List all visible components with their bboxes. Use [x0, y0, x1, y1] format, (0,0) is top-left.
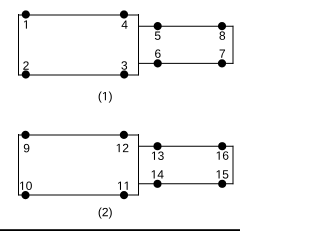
wire: network (2) outer loop bottom edge: [18, 194, 139, 196]
pin label 7: [220, 50, 225, 58]
node 15: [218, 180, 226, 188]
node 7: [218, 59, 226, 67]
node 6: [154, 59, 162, 67]
wire: network (2) outer loop right edge: [138, 134, 140, 196]
node 12: [120, 131, 128, 139]
node 14: [153, 180, 161, 188]
pin label 5: [155, 32, 161, 40]
node 4: [120, 10, 128, 18]
pin label 13: [152, 152, 164, 161]
node 16: [218, 142, 226, 150]
pin label 10: [20, 182, 32, 191]
node 11: [120, 191, 128, 199]
pin label 2: [23, 61, 28, 69]
pin label 9: [24, 144, 30, 153]
pin label 11: [118, 182, 128, 190]
node 2: [22, 70, 30, 78]
pin label 12: [117, 144, 129, 152]
caption (1): [99, 92, 112, 103]
node 8: [218, 22, 226, 30]
pin label 16: [217, 151, 229, 160]
wire: network (1) outer loop bottom edge: [18, 74, 139, 76]
wire: network (2) inner loop bottom edge: [139, 183, 234, 185]
node 9: [21, 131, 29, 139]
wire: network (2) outer loop top edge: [18, 134, 139, 136]
wire: network (1) inner loop top edge: [139, 25, 234, 27]
pin label 14: [152, 170, 164, 178]
pin label 15: [217, 170, 229, 178]
wire: network (2) inner loop top edge: [139, 145, 234, 147]
node 13: [153, 142, 161, 150]
wire: network (1) inner loop bottom edge: [139, 62, 234, 64]
node 3: [120, 70, 128, 78]
node 1: [22, 10, 30, 18]
wire: network (1) inner loop right edge: [232, 26, 234, 64]
wire: network (1) outer loop right edge: [138, 14, 140, 76]
caption (2): [99, 208, 112, 219]
pin label 8: [219, 31, 225, 40]
wire: network (2) outer loop left edge: [18, 134, 20, 196]
pin label 4: [122, 20, 128, 28]
wire: network (2) inner loop right edge: [232, 146, 234, 185]
wire: network (1) outer loop top edge: [18, 14, 139, 16]
pin label 1: [24, 20, 27, 28]
pin label 6: [155, 49, 161, 58]
pin label 3: [121, 61, 127, 70]
node 5: [154, 22, 162, 30]
wire: network (1) outer loop left edge: [18, 14, 20, 76]
bottom separator rule: [0, 229, 240, 231]
node 10: [21, 191, 29, 199]
